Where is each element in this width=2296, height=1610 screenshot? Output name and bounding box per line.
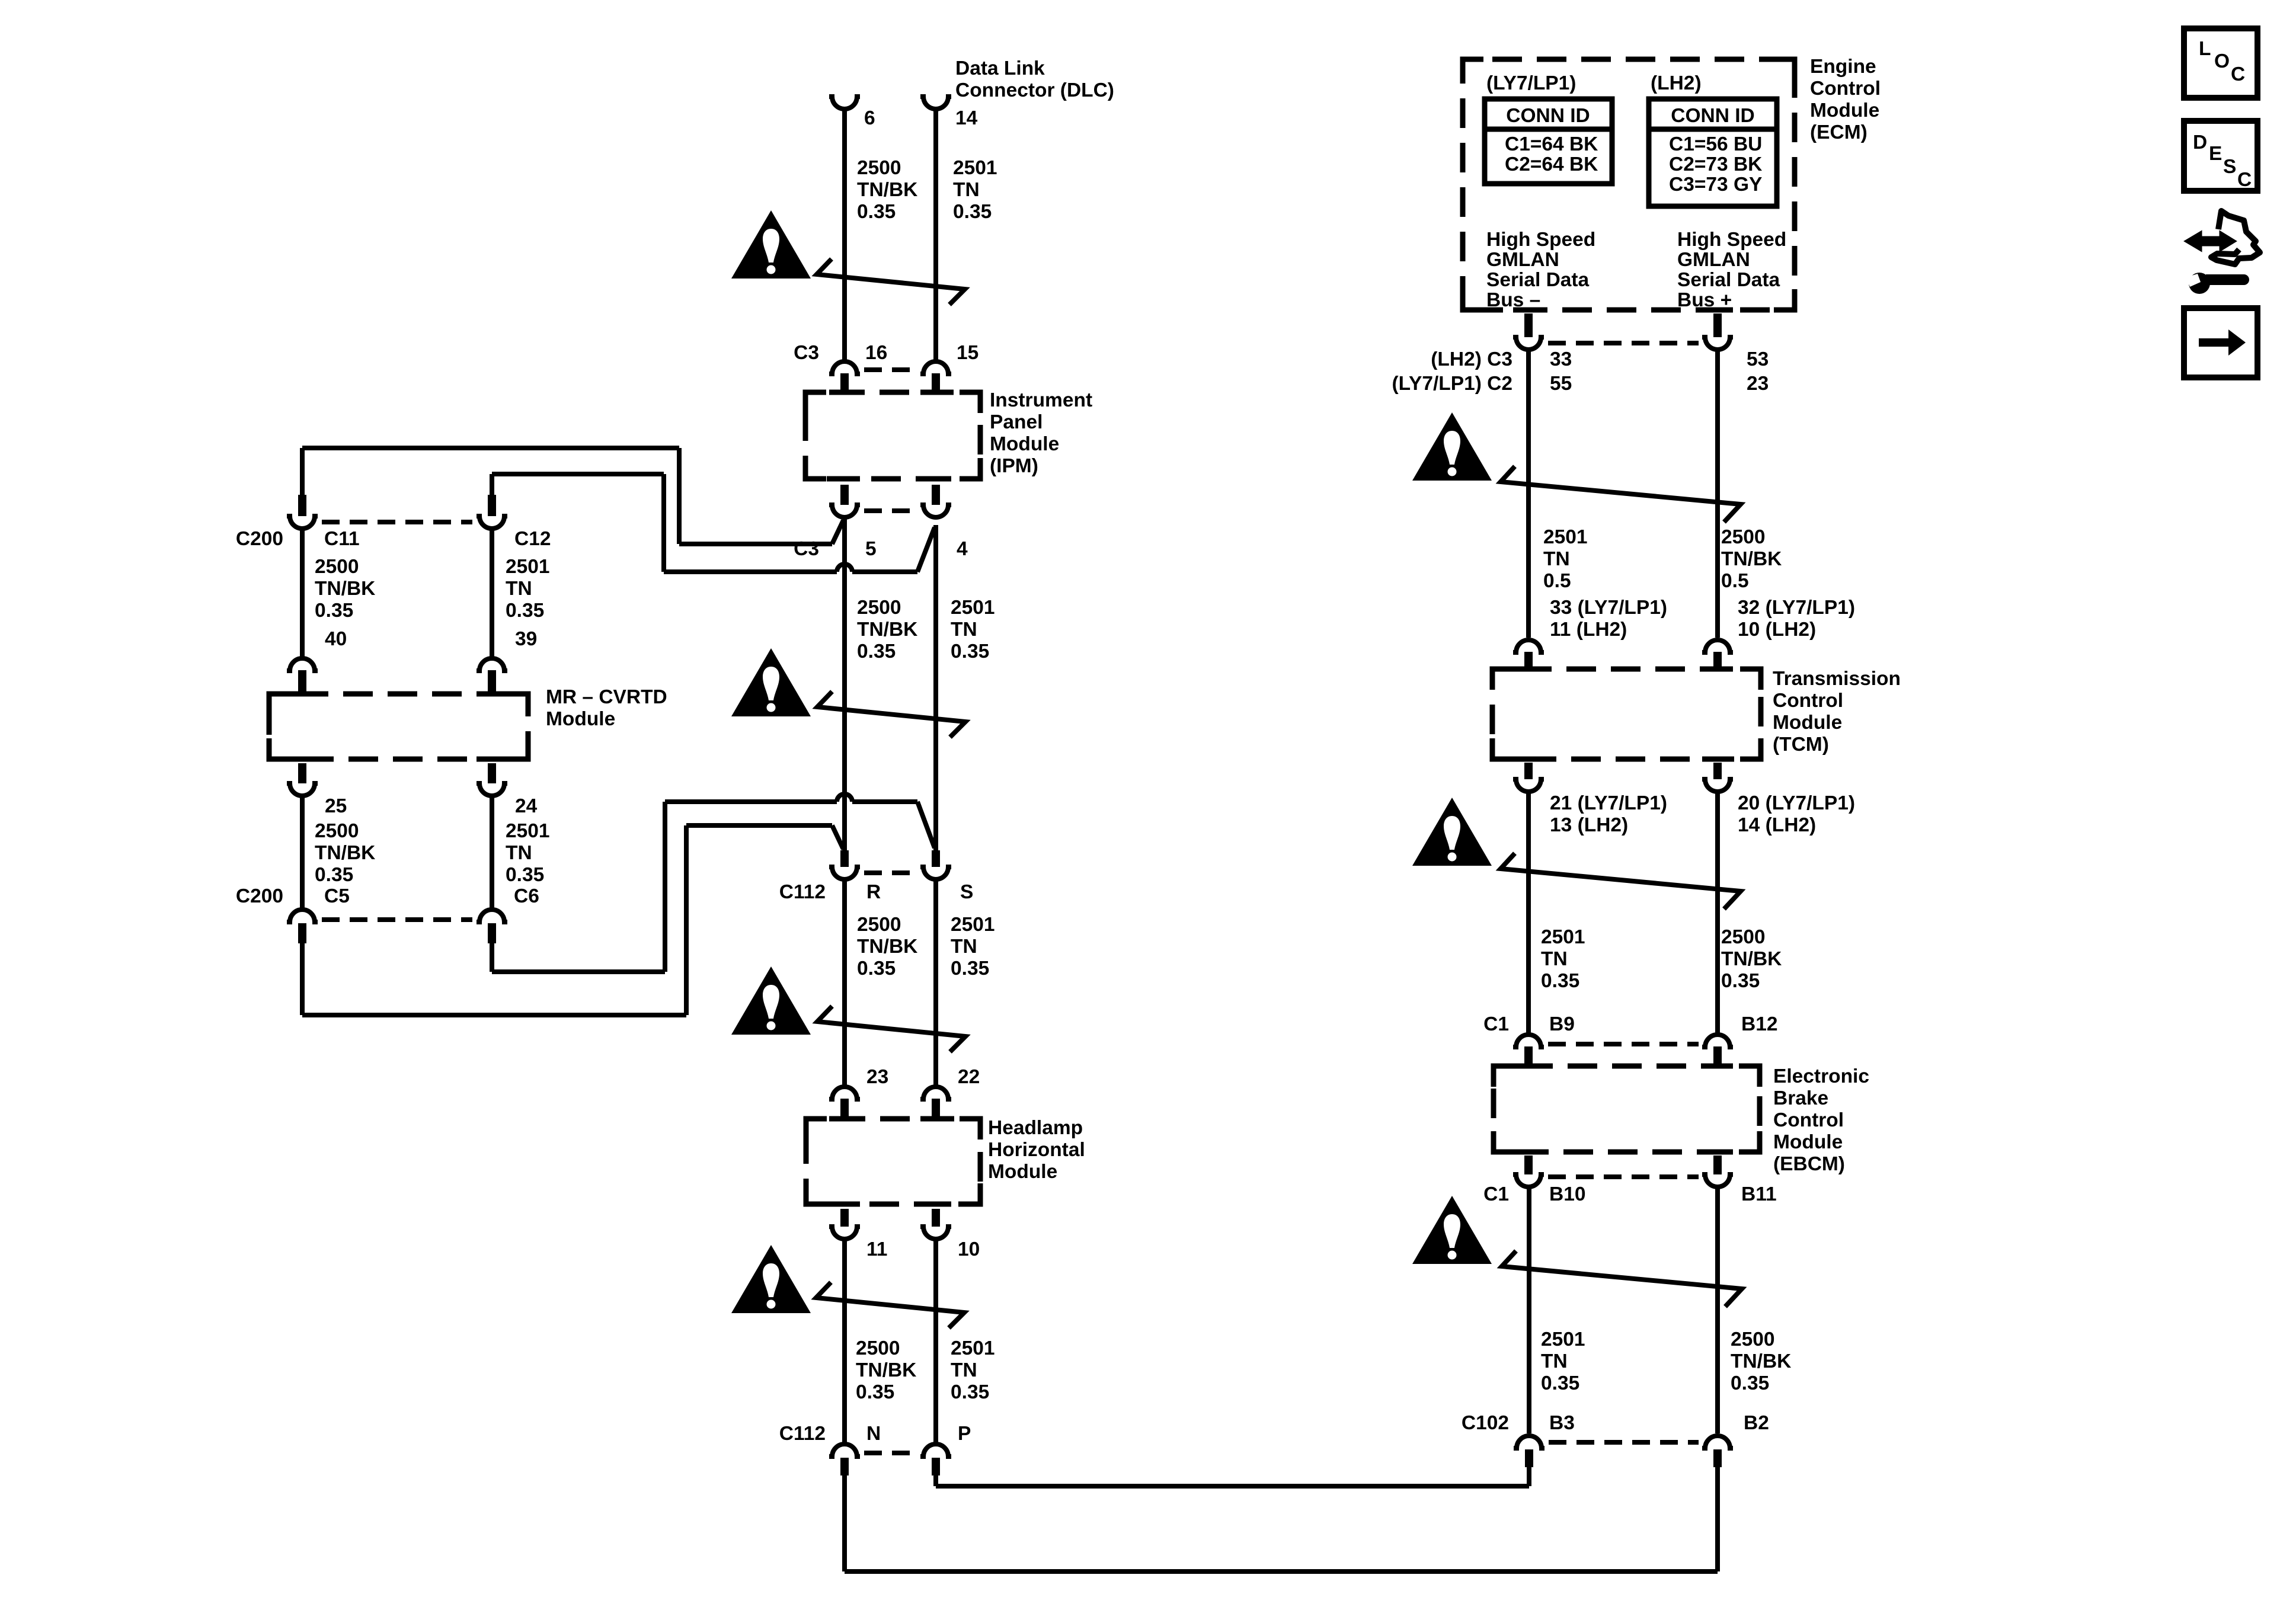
- svg-text:C1=64 BK: C1=64 BK: [1505, 133, 1598, 155]
- svg-text:55: 55: [1550, 373, 1572, 395]
- svg-text:TN/BK: TN/BK: [1721, 548, 1782, 570]
- wire 2501 EBCM to C102 B3: [1527, 1187, 1531, 1433]
- svg-text:0.35: 0.35: [856, 1381, 894, 1403]
- svg-text:2501: 2501: [506, 556, 550, 578]
- svg-text:Bus +: Bus +: [1677, 289, 1732, 311]
- svg-text:B2: B2: [1744, 1412, 1769, 1434]
- wire loop outer vertical: [677, 448, 682, 544]
- IPM pin 16 male stub: [840, 373, 849, 393]
- IPM pin 4 male stub: [932, 485, 940, 505]
- wire run to IPM pin 4 part 2: [852, 569, 917, 574]
- wire 2500 R to headlamp 23: [842, 879, 847, 1085]
- svg-text:MR – CVRTD: MR – CVRTD: [546, 686, 667, 708]
- twisted pair marker P1: [817, 259, 965, 305]
- svg-text:Control: Control: [1810, 78, 1881, 100]
- headlamp pin 10 male stub: [932, 1209, 940, 1227]
- svg-text:0.5: 0.5: [1721, 570, 1749, 592]
- EBCM pin B9 male stub: [1524, 1046, 1533, 1068]
- wire loop outer horizontal (2500 net): [302, 446, 679, 450]
- svg-text:14 (LH2): 14 (LH2): [1738, 814, 1816, 836]
- svg-text:TN: TN: [951, 619, 977, 641]
- wire 2501 DLC14 to IPM15: [933, 109, 938, 360]
- svg-text:2500: 2500: [1721, 526, 1766, 548]
- svg-text:Headlamp: Headlamp: [988, 1117, 1083, 1139]
- svg-text:23: 23: [866, 1066, 888, 1088]
- wire P down to elbow: [933, 1475, 938, 1486]
- svg-text:11 (LH2): 11 (LH2): [1550, 619, 1627, 641]
- wire 2501 TCM to EBCM: [1526, 792, 1531, 1033]
- wire C5 loop bottom horizontal: [302, 1013, 686, 1017]
- svg-text:0.35: 0.35: [1541, 1372, 1579, 1394]
- svg-text:GMLAN: GMLAN: [1486, 249, 1559, 271]
- svg-text:33: 33: [1550, 348, 1572, 370]
- svg-text:2501: 2501: [951, 597, 995, 619]
- wire B2 down to bottom run: [1715, 1467, 1720, 1571]
- wire run to C112 S: [665, 799, 837, 804]
- headlamp pin base bars: [829, 1116, 860, 1122]
- svg-text:11: 11: [866, 1238, 887, 1260]
- svg-text:2500: 2500: [1721, 926, 1766, 948]
- svg-text:0.35: 0.35: [315, 864, 353, 886]
- TCM right pin terminal: [1702, 640, 1733, 652]
- EBCM pin B11 male stub: [1713, 1156, 1722, 1174]
- svg-text:(LH2): (LH2): [1651, 72, 1702, 94]
- C102 B2 male stub: [1713, 1449, 1722, 1467]
- ECM pin base bars: [1513, 308, 1544, 313]
- svg-text:2500: 2500: [857, 157, 901, 179]
- IPM pin 5 terminal: [829, 505, 860, 517]
- MR pin 39 terminal: [477, 658, 507, 671]
- svg-text:TN/BK: TN/BK: [315, 578, 375, 600]
- svg-text:L: L: [2199, 38, 2211, 60]
- wire run to IPM pin 5: [679, 542, 832, 546]
- wire 2501 ECM to TCM: [1526, 350, 1531, 638]
- svg-text:Module: Module: [990, 433, 1059, 455]
- wire loop inner vertical: [661, 474, 666, 572]
- C112 P male stub: [932, 1458, 940, 1475]
- wire run to IPM pin 4: [664, 569, 837, 574]
- headlamp pin 11 terminal: [829, 1227, 860, 1239]
- connector C200 dashed link C5-C6: [322, 917, 472, 922]
- warning triangle T4: [731, 1245, 811, 1313]
- wire C5 down: [300, 943, 305, 1015]
- svg-text:High Speed: High Speed: [1486, 229, 1595, 251]
- C200 C6 male stub: [488, 923, 496, 943]
- svg-text:2500: 2500: [857, 597, 901, 619]
- wire B3 down to bottom run: [1527, 1467, 1531, 1486]
- C112 R male stub: [840, 850, 849, 867]
- svg-text:TN/BK: TN/BK: [857, 936, 917, 958]
- svg-text:5: 5: [865, 538, 877, 560]
- svg-text:C102: C102: [1462, 1412, 1509, 1434]
- svg-text:2500: 2500: [315, 820, 359, 842]
- svg-text:TN/BK: TN/BK: [315, 842, 375, 864]
- C112 R terminal: [829, 867, 860, 879]
- svg-text:2501: 2501: [951, 1337, 995, 1359]
- svg-text:33 (LY7/LP1): 33 (LY7/LP1): [1550, 597, 1667, 619]
- C200 C11 male stub: [298, 495, 306, 516]
- MR pin 39 male stub: [488, 670, 496, 695]
- svg-text:2501: 2501: [506, 820, 550, 842]
- svg-text:TN/BK: TN/BK: [857, 619, 917, 641]
- svg-text:TN: TN: [1541, 948, 1568, 970]
- svg-text:C1: C1: [1483, 1013, 1509, 1035]
- svg-text:Electronic: Electronic: [1773, 1065, 1869, 1087]
- svg-text:C3=73 GY: C3=73 GY: [1669, 174, 1762, 196]
- MR pin 24 terminal: [477, 783, 507, 796]
- svg-text:0.35: 0.35: [857, 958, 896, 980]
- wire 2500 EBCM to C102 B2: [1715, 1187, 1720, 1433]
- svg-text:Brake: Brake: [1773, 1087, 1828, 1109]
- connection tool icon: double arrow: [2185, 232, 2236, 251]
- Engine Control Module box: [1463, 59, 1795, 310]
- svg-text:CONN ID: CONN ID: [1506, 105, 1590, 127]
- TCM pin 21 terminal: [1513, 779, 1544, 792]
- svg-text:O: O: [2214, 50, 2230, 72]
- C102 B3 terminal: [1514, 1436, 1544, 1448]
- svg-text:2501: 2501: [1541, 926, 1585, 948]
- svg-text:B10: B10: [1549, 1183, 1585, 1205]
- IPM pin 16 terminal: [829, 361, 860, 374]
- connector C112 dashed link N-P: [864, 1451, 916, 1455]
- svg-text:C: C: [2231, 63, 2245, 85]
- wire 2501 IPM4 to C112 S: [933, 525, 938, 850]
- headlamp pin 10 terminal: [920, 1227, 951, 1239]
- svg-text:2501: 2501: [1541, 1329, 1585, 1350]
- C200 C11 terminal: [287, 516, 318, 529]
- svg-text:40: 40: [325, 628, 347, 650]
- svg-text:C5: C5: [324, 885, 350, 907]
- C112 N terminal: [829, 1444, 860, 1457]
- svg-text:C6: C6: [514, 885, 539, 907]
- twisted pair marker P3: [817, 1006, 965, 1052]
- wire 2501 headlamp10 to C112 P: [933, 1240, 938, 1443]
- connection tool icon: wrench: [2206, 274, 2249, 285]
- IPM pin 15 terminal: [920, 361, 951, 374]
- wire run to C112 R: [686, 823, 832, 828]
- svg-text:Module: Module: [1773, 712, 1842, 734]
- svg-text:24: 24: [515, 795, 538, 817]
- svg-text:Engine: Engine: [1810, 56, 1876, 78]
- svg-text:B12: B12: [1741, 1013, 1777, 1035]
- svg-text:Bus –: Bus –: [1486, 289, 1540, 311]
- headlamp pin 23 male stub: [840, 1099, 849, 1120]
- MR pin 40 male stub: [298, 670, 306, 695]
- C200 C12 male stub: [488, 495, 496, 516]
- wire C6 down: [490, 943, 494, 972]
- forward arrow icon box: [2184, 308, 2257, 377]
- headlamp pin 22 male stub: [932, 1099, 940, 1120]
- EBCM pin B12 terminal: [1702, 1035, 1733, 1047]
- connector C3 dashed link 16-15: [864, 367, 916, 372]
- svg-text:Horizontal: Horizontal: [988, 1139, 1085, 1161]
- svg-text:(TCM): (TCM): [1773, 734, 1829, 756]
- IPM pin base bars: [829, 390, 860, 395]
- svg-text:10 (LH2): 10 (LH2): [1738, 619, 1816, 641]
- svg-text:16: 16: [865, 342, 887, 364]
- svg-text:4: 4: [957, 538, 968, 560]
- svg-text:CONN ID: CONN ID: [1671, 105, 1754, 127]
- DLC terminal pin 14: [920, 97, 951, 109]
- svg-text:2500: 2500: [856, 1337, 900, 1359]
- svg-text:(IPM): (IPM): [990, 455, 1038, 477]
- ECM connector dashed link: [1548, 341, 1699, 345]
- EBCM pin B12 male stub: [1713, 1046, 1722, 1068]
- wire run to C112 S part 2: [852, 799, 917, 804]
- MR-CVRTD Module box: [269, 694, 528, 759]
- svg-text:0.35: 0.35: [1731, 1372, 1769, 1394]
- wire P to C102 B3 bottom run: [936, 1484, 1529, 1489]
- svg-text:0.35: 0.35: [951, 958, 989, 980]
- svg-text:0.35: 0.35: [315, 600, 353, 622]
- CONN ID table LH2: [1649, 99, 1777, 206]
- wire 2500 ECM to TCM: [1715, 350, 1720, 638]
- CONN ID table LY7/LP1: [1485, 99, 1612, 184]
- wire C11 to MR pin 40: [300, 529, 305, 658]
- svg-text:(LY7/LP1): (LY7/LP1): [1486, 72, 1576, 94]
- headlamp pin 22 terminal: [920, 1087, 951, 1099]
- connector C200 dashed link C11-C12: [322, 520, 472, 524]
- Headlamp Horizontal Module box: [806, 1119, 980, 1204]
- svg-text:Control: Control: [1773, 690, 1843, 712]
- C112 S terminal: [920, 867, 951, 879]
- svg-text:0.5: 0.5: [1543, 570, 1571, 592]
- svg-text:C200: C200: [236, 885, 283, 907]
- svg-text:Module: Module: [546, 708, 615, 730]
- IPM pin 5 male stub: [840, 485, 849, 505]
- C112 S male stub: [932, 850, 940, 867]
- svg-text:15: 15: [957, 342, 978, 364]
- svg-text:20 (LY7/LP1): 20 (LY7/LP1): [1738, 792, 1855, 814]
- svg-text:TN: TN: [1543, 548, 1570, 570]
- svg-text:TN/BK: TN/BK: [856, 1359, 916, 1381]
- svg-text:Serial Data: Serial Data: [1677, 269, 1780, 291]
- svg-text:13 (LH2): 13 (LH2): [1550, 814, 1628, 836]
- svg-text:Module: Module: [988, 1161, 1057, 1183]
- svg-text:C200: C200: [236, 528, 283, 550]
- EBCM pin base bars: [1513, 1064, 1544, 1069]
- C200 C5 terminal: [287, 910, 318, 922]
- warning triangle T6: [1412, 798, 1492, 866]
- MR pin 40 terminal: [287, 658, 318, 671]
- Instrument Panel Module box: [805, 392, 980, 479]
- Transmission Control Module box: [1492, 669, 1761, 759]
- svg-text:C11: C11: [324, 528, 360, 550]
- headlamp pin 23 terminal: [829, 1087, 860, 1099]
- svg-text:2500: 2500: [857, 914, 901, 936]
- svg-text:C3: C3: [794, 538, 819, 560]
- svg-text:C112: C112: [779, 1423, 826, 1445]
- svg-text:TN: TN: [951, 1359, 977, 1381]
- svg-text:C2=73 BK: C2=73 BK: [1669, 153, 1762, 175]
- svg-text:TN: TN: [953, 179, 980, 201]
- svg-text:TN/BK: TN/BK: [1721, 948, 1782, 970]
- wire C5 loop vertical: [684, 825, 689, 1015]
- svg-text:R: R: [866, 881, 881, 903]
- wire diagonal into pin 4: [917, 527, 935, 572]
- warning triangle T1: [731, 210, 811, 279]
- DLC terminal pin 6: [829, 97, 860, 109]
- TCM right pin male stub: [1713, 652, 1722, 671]
- warning triangle T7: [1412, 1196, 1492, 1264]
- svg-text:(ECM): (ECM): [1810, 121, 1868, 143]
- svg-text:C12: C12: [514, 528, 551, 550]
- svg-text:D: D: [2193, 132, 2207, 153]
- twisted pair marker P2: [817, 692, 965, 737]
- wire N to C102 B2 bottom run: [845, 1569, 1718, 1574]
- svg-text:TN: TN: [506, 842, 532, 864]
- svg-text:B3: B3: [1549, 1412, 1575, 1434]
- wire N down to elbow: [842, 1475, 847, 1571]
- C112 P terminal: [920, 1444, 951, 1457]
- TCM pin 21 male stub: [1524, 763, 1533, 779]
- svg-text:23: 23: [1747, 373, 1769, 395]
- svg-text:E: E: [2209, 143, 2222, 165]
- EBCM pin B10 terminal: [1513, 1174, 1544, 1187]
- svg-text:10: 10: [958, 1238, 980, 1260]
- svg-text:TN/BK: TN/BK: [857, 179, 917, 201]
- svg-text:6: 6: [864, 107, 875, 129]
- TCM left pin terminal: [1513, 640, 1544, 652]
- svg-text:Instrument: Instrument: [990, 389, 1092, 411]
- svg-text:25: 25: [325, 795, 347, 817]
- Electronic Brake Control Module box: [1494, 1066, 1760, 1152]
- headlamp pin 11 male stub: [840, 1209, 849, 1227]
- ECM pin 53/23 male stub: [1713, 313, 1722, 337]
- svg-text:0.35: 0.35: [506, 864, 544, 886]
- svg-text:Transmission: Transmission: [1773, 668, 1901, 690]
- wire diagonal into pin 5: [832, 520, 843, 544]
- svg-text:B11: B11: [1741, 1183, 1777, 1205]
- svg-text:C1=56 BU: C1=56 BU: [1669, 133, 1762, 155]
- ECM left pin terminal: [1513, 337, 1544, 350]
- EBCM pin B9 terminal: [1513, 1035, 1544, 1047]
- wire diagonal into R: [832, 825, 843, 849]
- svg-text:32 (LY7/LP1): 32 (LY7/LP1): [1738, 597, 1855, 619]
- IPM pin 15 male stub: [932, 373, 940, 393]
- svg-text:Control: Control: [1773, 1109, 1844, 1131]
- TCM left pin male stub: [1524, 652, 1533, 671]
- svg-text:(LH2) C3: (LH2) C3: [1431, 348, 1512, 370]
- wire MR25 to C200 C5: [300, 796, 305, 908]
- svg-text:B9: B9: [1549, 1013, 1575, 1035]
- wire hop over 2500 wire: [837, 794, 852, 802]
- MR pin 25 male stub: [298, 763, 306, 783]
- IPM pin 4 terminal: [920, 505, 951, 517]
- C112 N male stub: [840, 1458, 849, 1475]
- svg-text:S: S: [2223, 156, 2236, 178]
- svg-text:(EBCM): (EBCM): [1773, 1153, 1845, 1175]
- twisted pair marker P7: [1502, 1251, 1742, 1307]
- TCM pin 20 male stub: [1713, 763, 1722, 779]
- connector C112 dashed link R-S: [864, 870, 916, 875]
- C200 C12 terminal: [477, 516, 507, 529]
- wire 2500 IPM5 to C112 R: [842, 518, 847, 850]
- warning triangle T3: [731, 966, 811, 1035]
- wire up from C200 C12 to loop: [490, 474, 494, 496]
- svg-text:(LY7/LP1) C2: (LY7/LP1) C2: [1392, 373, 1512, 395]
- svg-text:C: C: [2237, 169, 2252, 191]
- wire diagonal into S: [917, 802, 935, 848]
- C200 C5 male stub: [298, 923, 306, 943]
- twisted pair marker P4: [816, 1282, 964, 1328]
- svg-text:0.35: 0.35: [1541, 970, 1579, 992]
- svg-text:21 (LY7/LP1): 21 (LY7/LP1): [1550, 792, 1667, 814]
- EBCM pin B11 terminal: [1702, 1174, 1733, 1187]
- connector C102 dashed link B3-B2: [1549, 1440, 1699, 1445]
- C102 B2 terminal: [1702, 1436, 1733, 1448]
- ECM pin 33/55 male stub: [1524, 313, 1533, 337]
- svg-text:GMLAN: GMLAN: [1677, 249, 1750, 271]
- svg-text:Module: Module: [1773, 1131, 1843, 1153]
- wire 2501 S to headlamp 22: [933, 879, 938, 1085]
- twisted pair marker P5: [1501, 466, 1741, 522]
- svg-text:0.35: 0.35: [857, 201, 896, 223]
- svg-text:TN/BK: TN/BK: [1731, 1350, 1791, 1372]
- svg-text:Panel: Panel: [990, 411, 1043, 433]
- svg-text:TN: TN: [1541, 1350, 1568, 1372]
- ECM right pin terminal: [1702, 337, 1733, 350]
- svg-text:N: N: [866, 1423, 881, 1445]
- svg-text:2501: 2501: [1543, 526, 1588, 548]
- svg-text:2501: 2501: [951, 914, 995, 936]
- svg-text:Data Link: Data Link: [955, 57, 1045, 79]
- C102 B3 male stub: [1525, 1449, 1533, 1467]
- svg-text:0.35: 0.35: [1721, 970, 1760, 992]
- svg-text:C2=64 BK: C2=64 BK: [1505, 153, 1598, 175]
- DESC icon box: [2184, 121, 2257, 191]
- svg-text:0.35: 0.35: [951, 641, 989, 662]
- svg-text:0.35: 0.35: [951, 1381, 989, 1403]
- wire MR24 to C200 C6: [490, 796, 494, 908]
- MR pin base bars: [287, 692, 318, 697]
- svg-text:S: S: [960, 881, 973, 903]
- svg-text:C112: C112: [779, 881, 826, 903]
- LOC icon box: [2184, 28, 2257, 98]
- TCM pin base bars: [1513, 667, 1544, 672]
- svg-text:53: 53: [1747, 348, 1769, 370]
- svg-text:Module: Module: [1810, 100, 1879, 121]
- wire C6 loop horizontal: [492, 969, 665, 974]
- svg-text:39: 39: [515, 628, 537, 650]
- wire 2500 headlamp11 to C112 N: [842, 1240, 847, 1443]
- wire C12 to MR pin 39: [490, 529, 494, 658]
- EBCM pin B10 male stub: [1524, 1156, 1533, 1174]
- svg-text:0.35: 0.35: [953, 201, 992, 223]
- svg-text:2501: 2501: [953, 157, 997, 179]
- warning triangle T2: [731, 648, 811, 716]
- svg-text:TN: TN: [506, 578, 532, 600]
- wire hop over 2500 wire: [837, 564, 852, 572]
- connection tool icon: connector outline: [2211, 211, 2260, 264]
- wire C6 loop vertical: [663, 802, 667, 972]
- svg-text:2500: 2500: [1731, 1329, 1775, 1350]
- svg-text:C1: C1: [1483, 1183, 1509, 1205]
- C200 C6 terminal: [477, 910, 507, 922]
- MR pin 24 male stub: [488, 763, 496, 783]
- wire loop inner horizontal (2501 net): [492, 472, 664, 476]
- svg-text:14: 14: [955, 107, 978, 129]
- svg-text:C3: C3: [794, 342, 819, 364]
- svg-text:TN: TN: [951, 936, 977, 958]
- svg-text:0.35: 0.35: [506, 600, 544, 622]
- wire 2500 TCM to EBCM: [1715, 792, 1720, 1033]
- connector C3 dashed link 5-4: [864, 508, 916, 513]
- svg-text:2500: 2500: [315, 556, 359, 578]
- warning triangle T5: [1412, 412, 1492, 481]
- TCM pin 20 terminal: [1702, 779, 1733, 792]
- svg-text:22: 22: [958, 1066, 980, 1088]
